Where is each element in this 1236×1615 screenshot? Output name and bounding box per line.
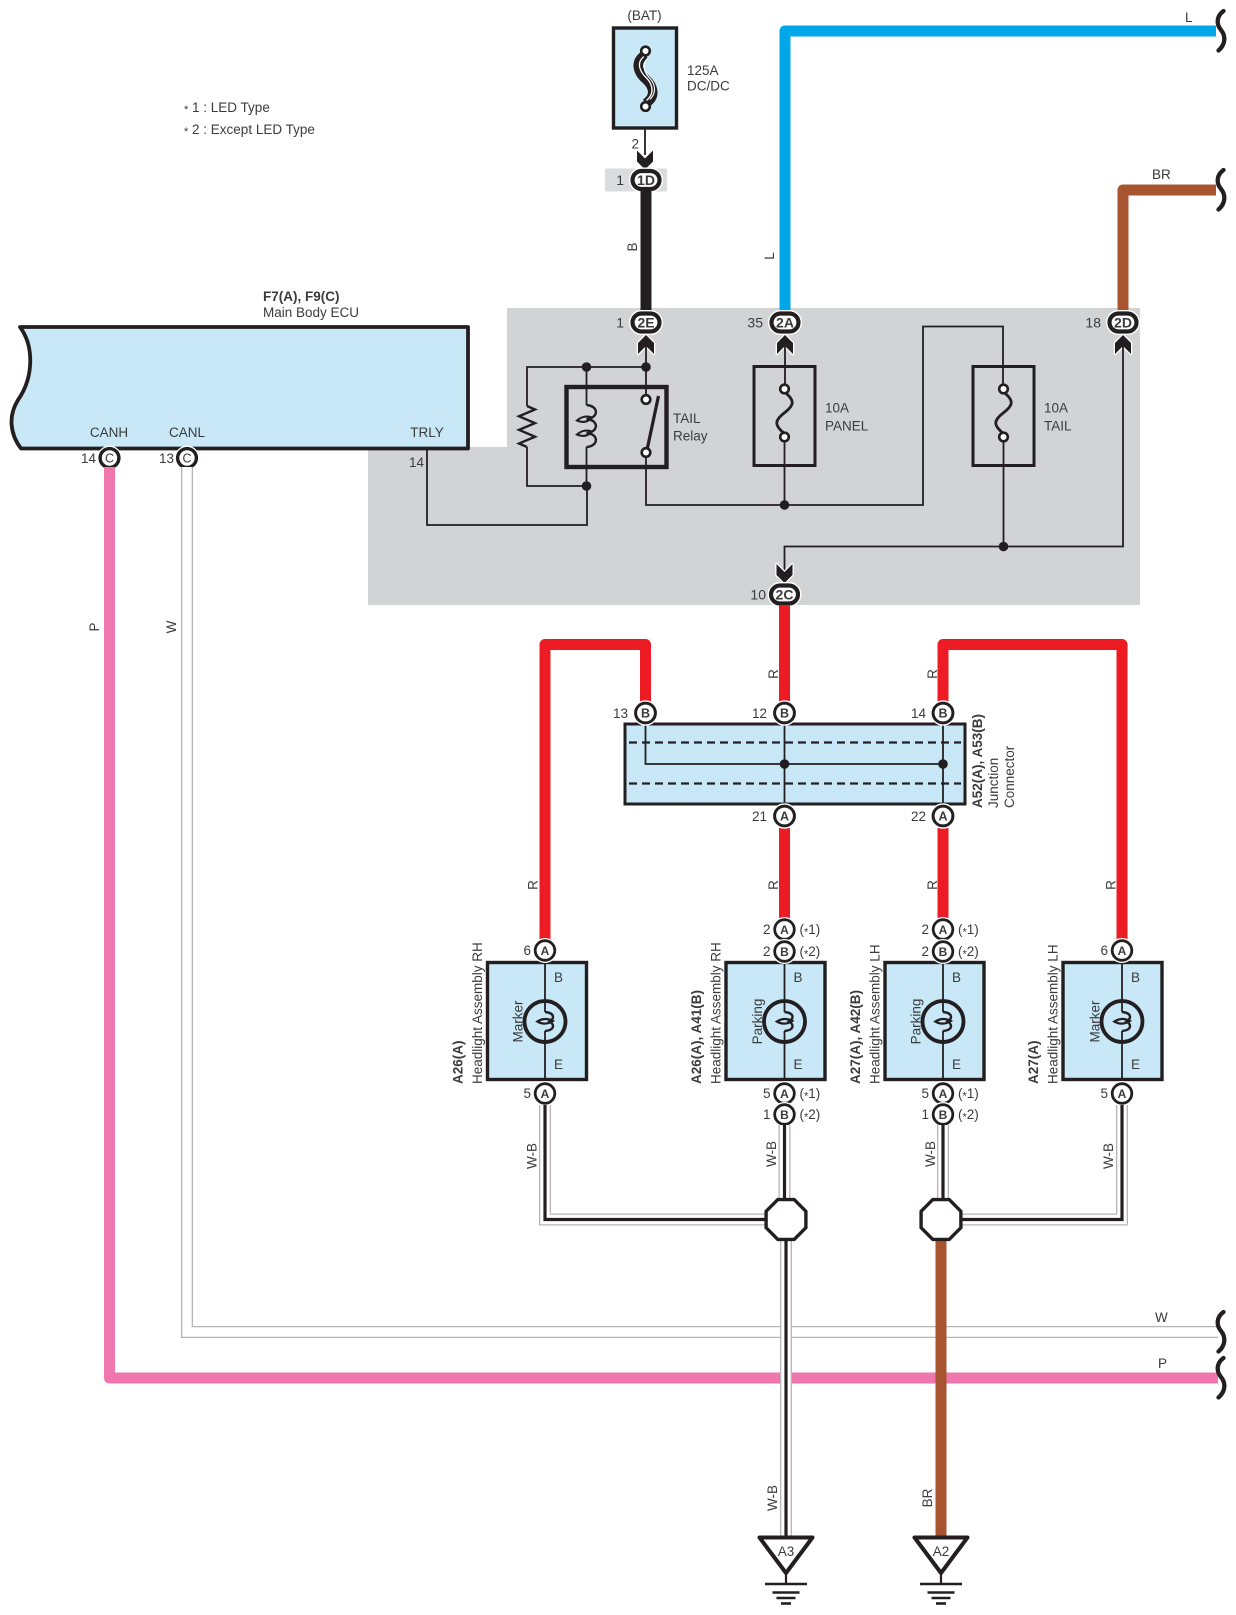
svg-text:5: 5 <box>1100 1086 1108 1101</box>
svg-text:1D: 1D <box>637 172 655 188</box>
wire R junction 14B to Marker LH <box>925 645 1122 941</box>
svg-text:E: E <box>794 1057 803 1072</box>
svg-text:R: R <box>766 669 781 679</box>
svg-text:P: P <box>87 622 102 631</box>
svg-text:A: A <box>541 944 550 958</box>
svg-text:C: C <box>105 452 114 466</box>
svg-text:L: L <box>762 252 777 260</box>
ground A2 <box>915 1538 968 1604</box>
wire R junction 13B to Marker RH <box>526 645 646 941</box>
svg-text:F7(A), F9(C): F7(A), F9(C) <box>263 289 340 304</box>
svg-text:Headlight Assembly RH: Headlight Assembly RH <box>709 942 724 1084</box>
wire R junction 21A to Parking RH <box>766 828 785 919</box>
junction pin 12 B <box>752 703 794 723</box>
svg-text:R: R <box>766 880 781 890</box>
lamp Parking - headlight assembly LH A27(A),A42(B) pin 2 B (*2) <box>921 942 978 962</box>
svg-text:BR: BR <box>1152 167 1171 182</box>
splice LH (octagon) <box>921 1200 961 1240</box>
lamp Marker - headlight assembly LH A27(A) pin 5 A <box>1100 1084 1131 1104</box>
lamp Parking - headlight assembly LH A27(A),A42(B) pin 1 B (*2) <box>921 1105 978 1125</box>
lamp Marker - headlight assembly RH A26(A) pin 5 A <box>523 1084 554 1104</box>
node coil top <box>582 362 592 372</box>
svg-text:W-B: W-B <box>923 1141 938 1167</box>
svg-text:2: 2 <box>763 922 771 937</box>
svg-text:Headlight Assembly RH: Headlight Assembly RH <box>470 942 485 1084</box>
svg-text:DC/DC: DC/DC <box>687 78 730 93</box>
wire relay output to fuses <box>646 327 1003 506</box>
svg-text:6: 6 <box>523 943 531 958</box>
node coil bottom / TRLY junction <box>582 481 592 491</box>
svg-text:(BAT): (BAT) <box>627 8 661 23</box>
svg-text:B: B <box>641 707 650 721</box>
connector 2C pin 10 <box>750 564 798 604</box>
svg-text:21: 21 <box>752 809 767 824</box>
svg-text:1: 1 <box>616 315 624 331</box>
svg-text:A: A <box>780 1087 789 1101</box>
svg-text:2: 2 <box>921 922 929 937</box>
wire W-B splice to ground A3 <box>765 1240 786 1538</box>
svg-text:A: A <box>541 1087 550 1101</box>
svg-text:Junction: Junction <box>986 758 1001 808</box>
junction pin 22 A <box>911 806 953 826</box>
svg-text:CANH: CANH <box>90 425 128 440</box>
svg-text:Connector: Connector <box>1002 745 1017 808</box>
lamp Parking - headlight assembly RH A26(A),A41(B) pin 2 A (*1) <box>763 920 820 940</box>
svg-text:13: 13 <box>159 451 174 466</box>
svg-text:B: B <box>780 707 789 721</box>
svg-text:2D: 2D <box>1114 315 1132 331</box>
wire 2A to PANEL fuse <box>784 340 786 389</box>
lamp Parking - headlight assembly LH A27(A),A42(B) pin 5 A (*1) <box>921 1084 978 1104</box>
svg-text:2: 2 <box>921 944 929 959</box>
lamp Parking - headlight assembly LH A27(A),A42(B) pin 2 A (*1) <box>921 920 978 940</box>
lamp Parking - headlight assembly LH A27(A),A42(B) <box>848 944 984 1084</box>
svg-text:B: B <box>952 970 961 985</box>
svg-text:A27(A): A27(A) <box>1026 1040 1041 1084</box>
svg-text:5: 5 <box>763 1086 771 1101</box>
svg-text:(*1): (*1) <box>800 922 821 939</box>
relay TAIL Relay <box>567 367 708 486</box>
svg-text:5: 5 <box>523 1086 531 1101</box>
svg-text:A27(A), A42(B): A27(A), A42(B) <box>848 990 863 1084</box>
svg-text:* 2 : Except LED Type: * 2 : Except LED Type <box>184 122 315 138</box>
splice RH (octagon) <box>766 1200 806 1240</box>
svg-text:10: 10 <box>750 587 766 603</box>
svg-text:14: 14 <box>911 706 927 721</box>
svg-text:2A: 2A <box>776 315 794 331</box>
svg-text:A: A <box>780 810 789 824</box>
svg-text:W: W <box>1155 1310 1168 1325</box>
svg-text:PANEL: PANEL <box>825 419 869 434</box>
continuation mark wire W <box>1218 1312 1225 1352</box>
fuse 10A PANEL <box>754 367 869 466</box>
svg-text:10A: 10A <box>825 401 849 416</box>
svg-text:A: A <box>1118 1087 1127 1101</box>
continuation mark wire BR <box>1218 170 1225 210</box>
svg-text:22: 22 <box>911 809 926 824</box>
svg-text:E: E <box>952 1057 961 1072</box>
node panel fuse bottom <box>780 500 790 510</box>
svg-text:R: R <box>925 669 940 679</box>
svg-text:A3: A3 <box>778 1544 795 1559</box>
svg-text:A2: A2 <box>933 1544 950 1559</box>
svg-text:A: A <box>780 923 789 937</box>
svg-text:2C: 2C <box>776 587 794 603</box>
wire PANEL fuse to relay output node <box>784 441 786 505</box>
wire W-B Parking LH to splice <box>923 1125 943 1200</box>
lamp Marker - headlight assembly LH A27(A) <box>1026 944 1162 1084</box>
wire W-B Parking RH to splice <box>764 1125 785 1200</box>
svg-text:14: 14 <box>81 451 97 466</box>
svg-text:2: 2 <box>631 137 639 152</box>
svg-text:L: L <box>1185 10 1193 25</box>
wire L (blue) from right edge to 2A <box>762 10 1216 312</box>
svg-text:W-B: W-B <box>1101 1143 1116 1169</box>
resistor (relay coil shunt) <box>519 406 587 486</box>
wire P (CANH) ECU to right edge <box>87 467 1218 1378</box>
ground A3 <box>760 1538 813 1604</box>
svg-text:A: A <box>939 923 948 937</box>
svg-text:W: W <box>164 620 179 633</box>
lamp Parking - headlight assembly RH A26(A),A41(B) pin 2 B (*2) <box>763 942 820 962</box>
svg-text:A: A <box>939 1087 948 1101</box>
svg-text:A: A <box>1118 944 1127 958</box>
svg-text:Parking: Parking <box>909 999 924 1045</box>
wire W-B Marker RH to splice <box>525 1105 767 1220</box>
svg-text:Headlight Assembly LH: Headlight Assembly LH <box>868 944 883 1084</box>
svg-text:13: 13 <box>613 706 628 721</box>
svg-text:W-B: W-B <box>525 1143 540 1169</box>
svg-text:TAIL: TAIL <box>1044 419 1072 434</box>
lamp Parking - headlight assembly RH A26(A),A41(B) pin 5 A (*1) <box>763 1084 820 1104</box>
svg-text:A26(A): A26(A) <box>451 1040 466 1084</box>
svg-text:B: B <box>780 1108 789 1122</box>
connector 1D pin 1 <box>605 169 667 192</box>
svg-text:E: E <box>554 1057 563 1072</box>
lamp Parking - headlight assembly RH A26(A),A41(B) pin 1 B (*2) <box>763 1105 820 1125</box>
svg-text:B: B <box>938 707 947 721</box>
node TAIL fuse / 2D junction <box>999 542 1009 552</box>
svg-text:(*2): (*2) <box>958 944 979 961</box>
svg-text:(*2): (*2) <box>958 1107 979 1124</box>
lamp Marker - headlight assembly RH A26(A) <box>451 942 587 1084</box>
svg-text:B: B <box>939 945 948 959</box>
wire 2E to relay <box>645 340 647 396</box>
svg-text:1: 1 <box>921 1107 929 1122</box>
svg-text:B: B <box>625 242 640 251</box>
svg-text:12: 12 <box>752 706 767 721</box>
svg-text:R: R <box>526 880 541 890</box>
fuse 10A TAIL <box>973 367 1072 466</box>
fusible link 125A DC/DC (BAT) <box>614 8 730 128</box>
svg-text:R: R <box>1104 880 1119 890</box>
svg-text:(*2): (*2) <box>800 1107 821 1124</box>
wire TAIL fuse to 2C rail <box>1003 441 1005 547</box>
ECU pin 14 CANH <box>81 449 119 468</box>
continuation mark wire P <box>1218 1358 1225 1398</box>
svg-text:5: 5 <box>921 1086 929 1101</box>
svg-text:2: 2 <box>763 944 771 959</box>
connector 2D pin 18 <box>1085 314 1136 355</box>
Main Body ECU F7(A),F9(C) <box>12 289 468 449</box>
lamp Marker - headlight assembly LH A27(A) pin 6 A <box>1100 941 1131 961</box>
connector 2E pin 1 <box>616 314 659 355</box>
svg-text:B: B <box>1131 970 1140 985</box>
junction pin 13 B <box>613 703 655 723</box>
wire R junction 22A to Parking LH <box>925 828 943 919</box>
junction block shaded area <box>368 308 1140 605</box>
svg-text:W-B: W-B <box>764 1141 779 1167</box>
wire rail to 2C and 2D <box>785 340 1124 578</box>
svg-text:Headlight Assembly LH: Headlight Assembly LH <box>1046 944 1061 1084</box>
wire BR (brown) from right edge to 2D <box>1123 167 1216 312</box>
svg-text:TAIL: TAIL <box>673 411 701 426</box>
wire R 2C to junction 12B <box>766 605 785 702</box>
lamp Parking - headlight assembly RH A26(A),A41(B) <box>689 942 825 1084</box>
svg-text:A52(A), A53(B): A52(A), A53(B) <box>970 714 985 808</box>
note *1 LED Type <box>184 100 270 116</box>
wire W (CANL) ECU to right edge <box>164 467 1218 1332</box>
connector 2A pin 35 <box>747 314 798 355</box>
svg-text:35: 35 <box>747 315 763 331</box>
svg-text:14: 14 <box>409 455 425 470</box>
lamp Marker - headlight assembly RH A26(A) pin 6 A <box>523 941 554 961</box>
svg-text:18: 18 <box>1085 315 1101 331</box>
svg-text:B: B <box>794 970 803 985</box>
node 2E/coil junction <box>641 362 651 372</box>
wire BR splice to ground A2 <box>920 1240 941 1538</box>
svg-text:B: B <box>780 945 789 959</box>
svg-text:R: R <box>925 880 940 890</box>
svg-text:P: P <box>1158 1356 1167 1371</box>
svg-text:1: 1 <box>616 172 624 188</box>
junction connector A52(A), A53(B) <box>625 714 1017 808</box>
svg-text:B: B <box>554 970 563 985</box>
svg-text:1: 1 <box>763 1107 771 1122</box>
svg-text:A: A <box>938 810 947 824</box>
svg-text:Parking: Parking <box>750 999 765 1045</box>
svg-text:W-B: W-B <box>765 1485 780 1511</box>
svg-text:(*1): (*1) <box>958 922 979 939</box>
svg-text:10A: 10A <box>1044 401 1068 416</box>
svg-text:Main Body ECU: Main Body ECU <box>263 305 359 320</box>
ECU pin 13 CANL <box>159 449 196 468</box>
note *2 Except LED Type <box>184 122 315 138</box>
svg-text:CANL: CANL <box>169 425 206 440</box>
svg-text:(*1): (*1) <box>958 1086 979 1103</box>
junction pin 21 A <box>752 806 794 826</box>
svg-text:TRLY: TRLY <box>410 425 444 440</box>
wire battery to 1D, pin 2 <box>631 128 653 170</box>
svg-text:(*2): (*2) <box>800 944 821 961</box>
junction pin 14 B <box>911 703 953 723</box>
svg-text:B: B <box>939 1108 948 1122</box>
svg-text:Relay: Relay <box>673 429 708 444</box>
svg-text:BR: BR <box>920 1488 935 1507</box>
svg-text:125A: 125A <box>687 63 719 78</box>
wire B (black) 1D to 2E <box>625 190 646 312</box>
wire to coil and resistor <box>527 367 646 406</box>
svg-text:* 1 : LED Type: * 1 : LED Type <box>184 100 270 116</box>
svg-text:2E: 2E <box>637 315 654 331</box>
svg-text:A26(A), A41(B): A26(A), A41(B) <box>689 990 704 1084</box>
ECU pin 14 TRLY wire <box>409 450 587 525</box>
svg-text:E: E <box>1131 1057 1140 1072</box>
svg-text:(*1): (*1) <box>800 1086 821 1103</box>
continuation mark wire L <box>1218 11 1225 51</box>
svg-text:Marker: Marker <box>511 1000 526 1043</box>
svg-text:Marker: Marker <box>1088 1000 1103 1043</box>
wire W-B Marker LH to splice <box>962 1105 1122 1220</box>
svg-text:6: 6 <box>1100 943 1108 958</box>
svg-text:C: C <box>182 452 191 466</box>
